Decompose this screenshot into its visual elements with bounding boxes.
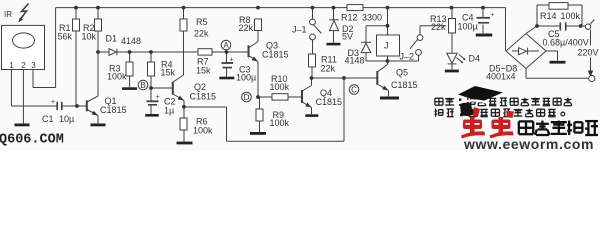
svg-text:22k: 22k [431,22,446,32]
svg-text:+: + [156,94,160,101]
svg-text:100k: 100k [270,82,290,92]
svg-text:3300: 3300 [362,13,382,23]
svg-text:R5: R5 [196,17,208,27]
svg-text:B: B [140,81,145,90]
svg-text:C1815: C1815 [391,80,418,90]
svg-text:C1815: C1815 [190,92,217,102]
svg-text:R12: R12 [341,13,358,23]
svg-text:5V: 5V [342,32,353,42]
svg-text:100k: 100k [107,72,127,82]
svg-text:56k: 56k [58,32,73,42]
svg-text:C1: C1 [42,114,54,124]
svg-text:4001x4: 4001x4 [486,72,516,82]
svg-text:1: 1 [9,61,14,70]
svg-text:D1: D1 [106,34,118,44]
svg-text:Q2: Q2 [194,82,206,92]
svg-text:J–1: J–1 [292,25,307,35]
svg-text:+: + [230,57,234,64]
svg-text:C: C [351,86,357,95]
svg-text:100µ: 100µ [458,22,478,32]
svg-text:IR: IR [4,10,12,19]
svg-text:Q606.COM: Q606.COM [0,133,64,148]
svg-text:D4: D4 [469,54,481,64]
svg-text:4148: 4148 [345,56,365,66]
svg-text:A: A [223,41,229,50]
svg-text:1µ: 1µ [164,106,174,116]
svg-text:J: J [384,41,389,51]
svg-text:J–2: J–2 [400,52,415,62]
svg-text:2: 2 [21,61,26,70]
svg-text:R14: R14 [540,11,557,21]
svg-text:100k: 100k [193,126,213,136]
svg-text:www.eeworm.com: www.eeworm.com [463,136,594,151]
svg-text:+: + [51,99,55,106]
svg-text:22k: 22k [239,23,254,33]
svg-text:C1815: C1815 [262,50,289,60]
svg-text:100k: 100k [270,118,290,128]
svg-text:Q5: Q5 [396,68,408,78]
svg-text:15k: 15k [161,68,176,78]
svg-text:4148: 4148 [121,36,141,46]
svg-text:C1815: C1815 [100,105,127,115]
svg-text:22k: 22k [321,64,336,74]
svg-text:3: 3 [31,61,36,70]
svg-text:100µ: 100µ [236,73,256,83]
svg-text:220V: 220V [578,48,599,58]
svg-text:100k: 100k [561,11,581,21]
svg-text:+: + [491,12,495,19]
svg-text:10k: 10k [82,32,97,42]
svg-text:22k: 22k [194,29,209,39]
svg-text:D: D [244,93,250,102]
svg-text:10µ: 10µ [59,114,74,124]
svg-text:15k: 15k [196,66,211,76]
svg-text:C1815: C1815 [316,97,343,107]
svg-text:0.68µ/400V: 0.68µ/400V [543,38,589,48]
